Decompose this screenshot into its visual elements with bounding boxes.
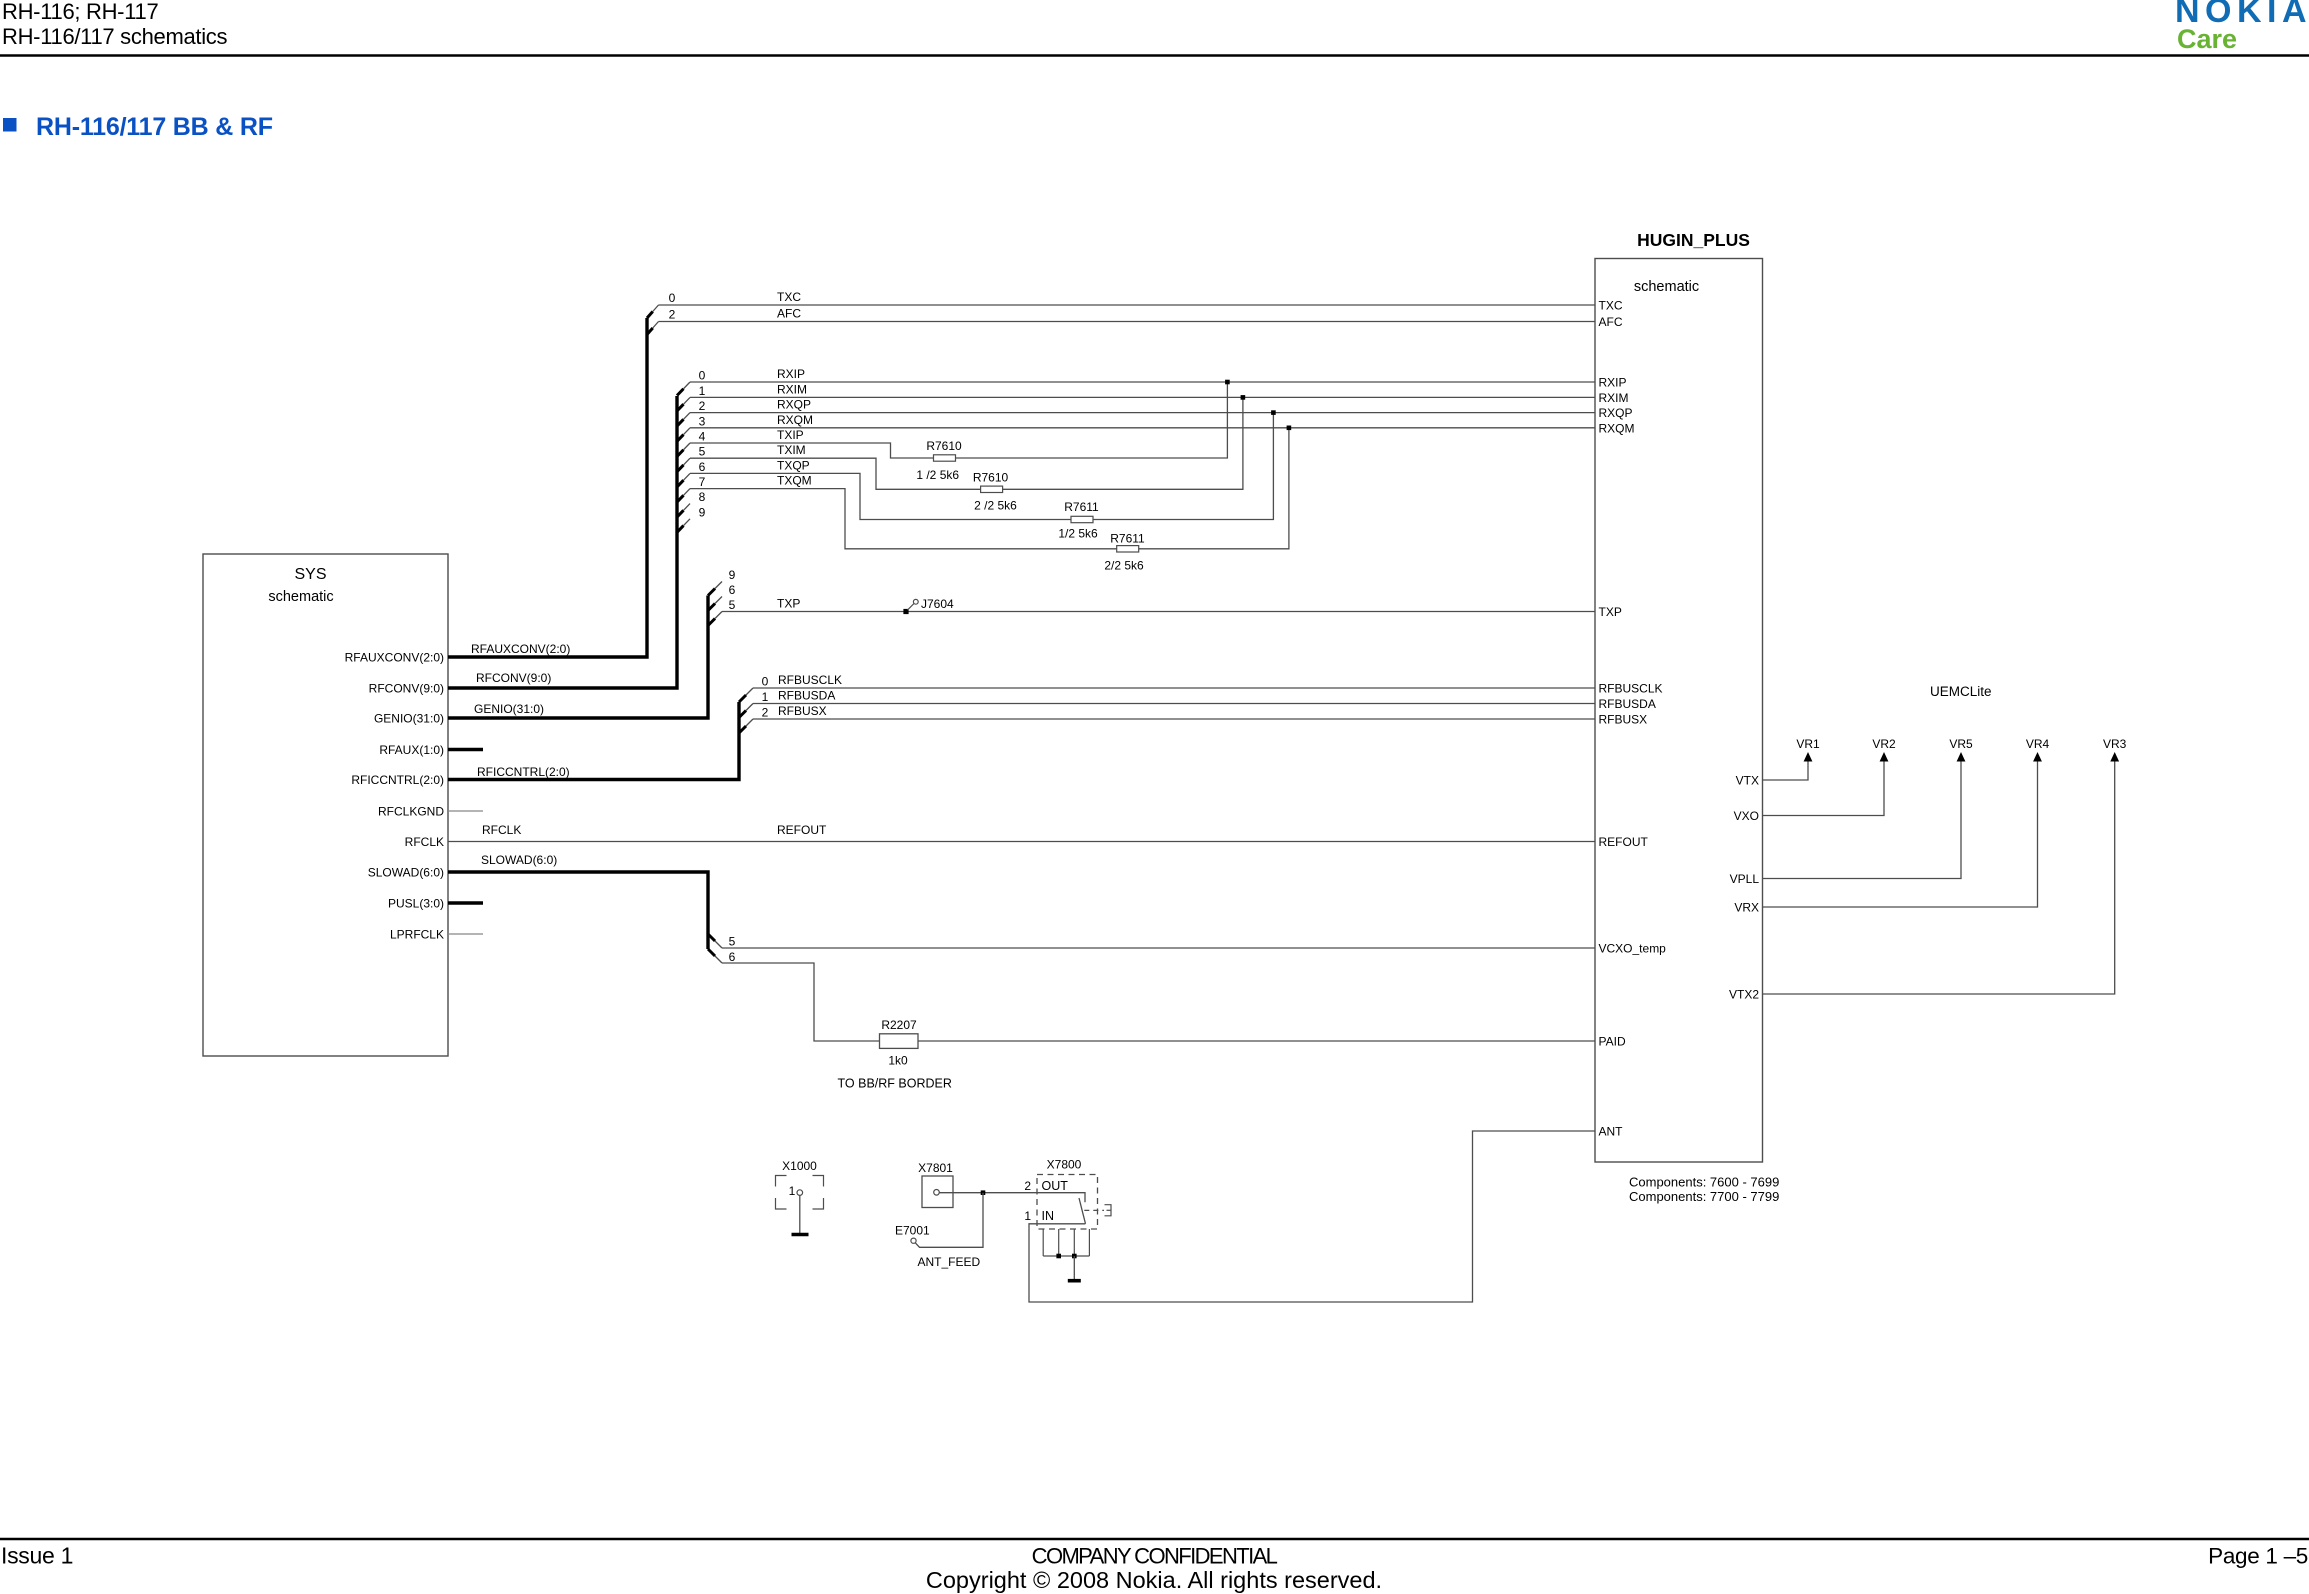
wire from R7610 to RX line <box>956 382 1228 458</box>
connector X7801 pin circle <box>934 1190 940 1196</box>
power net label VR1 <box>1796 737 1820 751</box>
svg-text:TO BB/RF BORDER: TO BB/RF BORDER <box>838 1077 952 1091</box>
HUGIN_PLUS pin label RFBUSX <box>1599 713 1648 727</box>
footer issue text <box>1 1543 73 1569</box>
tap number 6 (PAID) <box>729 950 736 964</box>
SYS pin stub RFCLKGND <box>448 810 483 812</box>
net label ANT_FEED <box>918 1255 981 1269</box>
wire VTX2 to VR3 <box>1763 760 2115 994</box>
svg-text:RFAUXCONV(2:0): RFAUXCONV(2:0) <box>471 642 570 656</box>
footer copyright <box>926 1567 1382 1593</box>
switch X7800 pin name OUT <box>1042 1179 1069 1193</box>
svg-text:2: 2 <box>669 308 676 322</box>
svg-text:5: 5 <box>729 598 736 612</box>
svg-text:TXC: TXC <box>1599 299 1623 313</box>
resistor R7610 value label 1 /2 5k6 <box>916 468 959 482</box>
wire RFBUSCLK <box>753 687 1595 689</box>
tap number 8 <box>699 490 706 504</box>
section heading RH-116/117 BB & RF <box>36 113 273 141</box>
document header title line 2 <box>2 24 228 49</box>
wire VCXO_temp <box>722 947 1595 949</box>
connector J7604 pin circle <box>913 599 918 604</box>
wire RXIM <box>690 396 1595 398</box>
svg-text:VPLL: VPLL <box>1730 872 1760 886</box>
tap number 6 <box>699 460 706 474</box>
footer company confidential <box>1032 1544 1278 1569</box>
svg-text:TXQM: TXQM <box>777 474 812 488</box>
SYS pin label LPRFCLK <box>390 928 444 942</box>
wire TXIM to resistor R7610 <box>690 458 981 489</box>
svg-text:GENIO(31:0): GENIO(31:0) <box>474 702 544 716</box>
svg-text:RFBUSCLK: RFBUSCLK <box>1599 682 1663 696</box>
SYS pin label RFCLK <box>405 835 444 849</box>
svg-text:1k0: 1k0 <box>888 1054 908 1068</box>
bus entry tap 2 (RFBUSX) <box>739 719 753 733</box>
svg-text:SLOWAD(6:0): SLOWAD(6:0) <box>368 866 444 880</box>
power arrow VR4 <box>2033 752 2042 762</box>
document header title line 1 <box>2 0 158 24</box>
junction on RX line at x=1227.4 <box>1225 380 1230 385</box>
svg-text:VR4: VR4 <box>2026 737 2050 751</box>
svg-text:8: 8 <box>699 490 706 504</box>
switch X7800 dashed body <box>1037 1175 1098 1230</box>
svg-text:VRX: VRX <box>1734 901 1759 915</box>
svg-text:2 /2 5k6: 2 /2 5k6 <box>974 499 1017 513</box>
wire TXP <box>722 611 1595 613</box>
connector X7801 body <box>922 1176 953 1208</box>
svg-text:4: 4 <box>699 430 706 444</box>
svg-text:6: 6 <box>729 583 736 597</box>
connector X1000 reference label <box>782 1159 817 1173</box>
SYS pin label RFICCNTRL(2:0) <box>351 773 444 787</box>
net label RXIP <box>777 367 805 381</box>
resistor R7610 (2 /2 5k6) <box>981 486 1003 492</box>
connector X1000 body corner brackets <box>776 1176 824 1210</box>
wire VTX to VR1 <box>1763 760 1809 780</box>
HUGIN_PLUS pin label RXIM <box>1599 391 1629 405</box>
power arrow VR1 <box>1804 752 1813 762</box>
svg-text:VR2: VR2 <box>1872 737 1896 751</box>
SYS pin stub PUSL(3:0) <box>448 901 483 905</box>
ground symbol <box>1068 1279 1081 1283</box>
SYS pin label RFAUX(1:0) <box>379 743 444 757</box>
bus entry tap 4 (TXIP) <box>677 443 690 457</box>
bus entry tap 9 (spare) <box>677 519 690 533</box>
net label TXQP <box>777 458 810 472</box>
resistor R7610 value label 2 /2 5k6 <box>974 499 1017 513</box>
SYS pin label RFCONV(9:0) <box>369 682 444 696</box>
net label TXQM <box>777 474 812 488</box>
svg-text:RH-116/117 schematics: RH-116/117 schematics <box>2 24 228 49</box>
resistor R7611 value label 2/2 5k6 <box>1104 559 1144 573</box>
section heading bullet square <box>3 118 17 132</box>
tap number 0 <box>699 369 706 383</box>
net label TXIM <box>777 443 806 457</box>
tap number 0 (TXC) <box>669 291 676 305</box>
wire VRX to VR4 <box>1763 760 2038 907</box>
svg-text:schematic: schematic <box>1634 279 1699 295</box>
junction on RX line at x=1242.9 <box>1241 395 1246 400</box>
svg-text:1: 1 <box>789 1184 796 1198</box>
wire AFC <box>659 321 1596 323</box>
bus entry tap 0 (TXC) <box>647 305 659 318</box>
svg-text:COMPANY CONFIDENTIAL: COMPANY CONFIDENTIAL <box>1032 1544 1278 1569</box>
svg-text:GENIO(31:0): GENIO(31:0) <box>374 712 444 726</box>
svg-text:Issue 1: Issue 1 <box>1 1543 73 1569</box>
HUGIN_PLUS pin label RXQP <box>1599 406 1633 420</box>
switch X7800 pin number 1 <box>1024 1209 1031 1223</box>
note TO BB/RF BORDER <box>838 1077 952 1091</box>
switch X7800 OUT contact <box>1037 1193 1085 1203</box>
tap number 0 (RFBUSCLK) <box>762 675 769 689</box>
svg-text:Page 1 –5: Page 1 –5 <box>2208 1544 2308 1569</box>
bus entry tap 5 (VCXO_temp) <box>708 934 722 948</box>
svg-text:RFBUSX: RFBUSX <box>778 704 827 718</box>
svg-text:REFOUT: REFOUT <box>777 823 827 837</box>
svg-text:0: 0 <box>669 291 676 305</box>
footer page number <box>2208 1544 2308 1569</box>
svg-text:VTX2: VTX2 <box>1729 988 1759 1002</box>
tap number 2 (AFC) <box>669 308 676 322</box>
NOKIA Care logo text <box>2177 24 2237 54</box>
svg-text:UEMCLite: UEMCLite <box>1930 684 1992 699</box>
connector X7801 reference label <box>918 1161 953 1175</box>
wire RFCLK / REFOUT <box>448 841 1595 843</box>
tap number 1 (RFBUSDA) <box>762 690 769 704</box>
svg-text:9: 9 <box>729 568 736 582</box>
bus entry tap 1 (RXIM) <box>677 397 690 411</box>
svg-text:RFCONV(9:0): RFCONV(9:0) <box>476 671 551 685</box>
connector J7604 reference label <box>921 597 954 611</box>
junction on ground rail 1 <box>1056 1254 1061 1259</box>
svg-text:1: 1 <box>699 384 706 398</box>
svg-text:RXQP: RXQP <box>1599 406 1633 420</box>
net label TXP <box>777 597 800 611</box>
svg-text:LPRFCLK: LPRFCLK <box>390 928 444 942</box>
svg-text:Components: 7700 - 7799: Components: 7700 - 7799 <box>1629 1189 1779 1204</box>
bus entry tap 7 (TXQM) <box>677 489 690 503</box>
bus label RFCONV(9:0) <box>476 671 551 685</box>
resistor R7611 (2/2 5k6) <box>1117 546 1139 552</box>
svg-text:R2207: R2207 <box>881 1018 917 1032</box>
resistor R2207 reference label <box>881 1018 917 1032</box>
svg-text:RFAUX(1:0): RFAUX(1:0) <box>379 743 444 757</box>
bus entry tap 3 (RXQM) <box>677 428 690 442</box>
SYS pin stub RFAUX(1:0) <box>448 748 483 752</box>
NOKIA logo wordmark <box>2175 0 2309 30</box>
svg-text:SYS: SYS <box>294 566 326 583</box>
svg-text:E7001: E7001 <box>895 1224 930 1238</box>
connector X1000 pin number 1 <box>789 1184 796 1198</box>
svg-text:Care: Care <box>2177 24 2237 54</box>
HUGIN_PLUS pin label VTX <box>1736 774 1759 788</box>
HUGIN_PLUS pin label VRX <box>1734 901 1759 915</box>
svg-text:RFCLK: RFCLK <box>405 835 444 849</box>
power arrow VR2 <box>1880 752 1889 762</box>
svg-text:R7610: R7610 <box>973 471 1009 485</box>
resistor R7611 value label 1/2 5k6 <box>1058 527 1098 541</box>
switch X7800 moving blade <box>1079 1198 1086 1224</box>
wire from R7610 to RX line <box>1003 397 1243 489</box>
bus label GENIO(31:0) <box>474 702 544 716</box>
bus entry tap 1 (RFBUSDA) <box>739 704 753 718</box>
svg-text:VXO: VXO <box>1734 809 1759 823</box>
svg-text:AFC: AFC <box>777 307 801 321</box>
wire RXIP <box>690 381 1595 383</box>
svg-text:R7611: R7611 <box>1064 500 1099 514</box>
svg-text:TXIM: TXIM <box>777 443 806 457</box>
SYS block name <box>294 566 326 583</box>
HUGIN_PLUS pin label VTX2 <box>1729 988 1759 1002</box>
svg-text:1/2 5k6: 1/2 5k6 <box>1058 527 1098 541</box>
footer horizontal rule <box>0 1538 2309 1541</box>
bus label RFAUXCONV(2:0) <box>471 642 570 656</box>
svg-text:0: 0 <box>762 675 769 689</box>
tap number 1 <box>699 384 706 398</box>
connector X1000 antenna stub wire <box>799 1195 801 1233</box>
svg-text:2: 2 <box>762 706 769 720</box>
svg-text:ANT_FEED: ANT_FEED <box>918 1255 981 1269</box>
connector J7604 pad on TXP wire <box>903 609 908 614</box>
tap number 4 <box>699 430 706 444</box>
svg-text:VR3: VR3 <box>2103 737 2127 751</box>
wire from R2207 to PAID pin <box>918 1040 1595 1042</box>
wire from R7611 to RX line <box>1093 413 1273 520</box>
SYS pin label SLOWAD(6:0) <box>368 866 444 880</box>
bus entry tap 5 (TXIM) <box>677 458 690 472</box>
SYS pin label GENIO(31:0) <box>374 712 444 726</box>
bus entry tap 6 (PAID) <box>708 949 722 963</box>
svg-text:1: 1 <box>762 690 769 704</box>
SYS pin label RFCLKGND <box>378 805 444 819</box>
svg-text:TXC: TXC <box>777 290 801 304</box>
svg-text:RFBUSCLK: RFBUSCLK <box>778 673 842 687</box>
resistor R2207 value label 1k0 <box>888 1054 908 1068</box>
switch X7800 reference label <box>1047 1158 1082 1172</box>
connector J7604 pin stem <box>908 604 915 611</box>
bus label RFICCNTRL(2:0) <box>477 765 570 779</box>
power net label VR3 <box>2103 737 2127 751</box>
svg-text:X7800: X7800 <box>1047 1158 1082 1172</box>
resistor R7610 reference label <box>926 439 962 453</box>
wire VXO to VR2 <box>1763 760 1885 816</box>
bus label SLOWAD(6:0) <box>481 853 557 867</box>
svg-text:PUSL(3:0): PUSL(3:0) <box>388 897 444 911</box>
wire X7801 to X7800 OUT <box>939 1192 1037 1194</box>
HUGIN_PLUS pin label VXO <box>1734 809 1759 823</box>
bus RFAUXCONV(2:0) from SYS <box>448 318 647 657</box>
wire TXC <box>659 304 1596 306</box>
svg-text:5: 5 <box>699 445 706 459</box>
svg-text:2: 2 <box>699 399 706 413</box>
test point E7001 circle <box>911 1238 916 1243</box>
svg-text:RFICCNTRL(2:0): RFICCNTRL(2:0) <box>351 773 444 787</box>
resistor R7610 reference label <box>973 471 1009 485</box>
switch X7800 actuator symbol <box>1105 1205 1112 1216</box>
UEMCLite label <box>1930 684 1992 699</box>
svg-text:RFAUXCONV(2:0): RFAUXCONV(2:0) <box>345 651 444 665</box>
junction on ground rail 2 <box>1072 1254 1077 1259</box>
svg-text:HUGIN_PLUS: HUGIN_PLUS <box>1637 230 1750 250</box>
SYS pin stub LPRFCLK <box>448 933 483 935</box>
svg-text:TXIP: TXIP <box>777 428 804 442</box>
svg-text:5: 5 <box>729 935 736 949</box>
svg-text:RFBUSDA: RFBUSDA <box>778 689 835 703</box>
switch X7800 pin number 2 <box>1024 1179 1031 1193</box>
svg-text:X1000: X1000 <box>782 1159 817 1173</box>
tap number 9 <box>699 505 706 519</box>
SYS pin label PUSL(3:0) <box>388 897 444 911</box>
svg-text:IN: IN <box>1042 1209 1055 1223</box>
wire to ground symbol <box>1073 1256 1075 1279</box>
bus entry tap 9 (spare) <box>708 582 722 596</box>
svg-text:RXIP: RXIP <box>1599 376 1627 390</box>
tap number 5 <box>699 445 706 459</box>
junction on RX line at x=1288.9 <box>1287 426 1292 431</box>
wire TXIP to resistor R7610 <box>690 443 934 458</box>
connector X1000 pin circle <box>797 1190 803 1196</box>
tap number 3 <box>699 414 706 428</box>
svg-text:J7604: J7604 <box>921 597 954 611</box>
net label RFBUSX <box>778 704 827 718</box>
svg-text:6: 6 <box>729 950 736 964</box>
svg-text:RXQM: RXQM <box>1599 421 1635 435</box>
svg-text:VR5: VR5 <box>1949 737 1973 751</box>
tap number 5 (TXP) <box>729 598 736 612</box>
svg-text:3: 3 <box>699 414 706 428</box>
svg-text:2/2 5k6: 2/2 5k6 <box>1104 559 1144 573</box>
wire RXQM <box>690 427 1595 429</box>
svg-text:7: 7 <box>699 475 706 489</box>
bus entry tap 2 (RXQP) <box>677 413 690 427</box>
svg-text:TXP: TXP <box>1599 605 1622 619</box>
net label AFC <box>777 307 801 321</box>
svg-text:RFCLK: RFCLK <box>482 823 521 837</box>
bus entry tap 2 (AFC) <box>647 322 659 335</box>
svg-text:R7611: R7611 <box>1110 532 1145 546</box>
svg-text:VTX: VTX <box>1736 774 1759 788</box>
switch X7800 IN contact wire <box>1037 1223 1085 1225</box>
svg-text:Components: 7600 - 7699: Components: 7600 - 7699 <box>1629 1175 1779 1190</box>
HUGIN_PLUS pin label TXC <box>1599 299 1623 313</box>
svg-text:1 /2 5k6: 1 /2 5k6 <box>916 468 959 482</box>
bus entry tap 5 (TXP) <box>708 612 722 626</box>
wire VPLL to VR5 <box>1763 760 1962 879</box>
bus entry tap 0 (RXIP) <box>677 382 690 396</box>
wire from R7611 to RX line <box>1139 428 1289 549</box>
HUGIN_PLUS pin label RFBUSCLK <box>1599 682 1663 696</box>
net label RFBUSDA <box>778 689 835 703</box>
tap number 2 <box>699 399 706 413</box>
wire RXQP <box>690 412 1595 414</box>
svg-text:RXIP: RXIP <box>777 367 805 381</box>
switch X7800 actuator dashed link <box>1084 1209 1104 1211</box>
power net label VR5 <box>1949 737 1973 751</box>
antenna element bar of X1000 <box>792 1233 809 1237</box>
wire TXQM to resistor R7611 <box>690 489 1117 549</box>
HUGIN_PLUS block name <box>1637 230 1750 250</box>
svg-text:6: 6 <box>699 460 706 474</box>
test point E7001 reference label <box>895 1224 930 1238</box>
tap number 6 (TXP) <box>729 583 736 597</box>
tap number 5 (VCXO_temp) <box>729 935 736 949</box>
switch X7800 ground pin wires <box>1043 1229 1089 1256</box>
resistor R7611 reference label <box>1110 532 1145 546</box>
wire RFBUSDA <box>753 703 1595 705</box>
svg-text:RXQP: RXQP <box>777 398 811 412</box>
switch X7800 pin name IN <box>1042 1209 1055 1223</box>
svg-text:RFICCNTRL(2:0): RFICCNTRL(2:0) <box>477 765 570 779</box>
HUGIN_PLUS pin label TXP <box>1599 605 1622 619</box>
HUGIN_PLUS pin label RFBUSDA <box>1599 697 1656 711</box>
svg-text:RXQM: RXQM <box>777 413 813 427</box>
svg-text:REFOUT: REFOUT <box>1599 835 1649 849</box>
resistor R7610 (1 /2 5k6) <box>934 455 956 461</box>
HUGIN_PLUS pin label AFC <box>1599 315 1623 329</box>
bus entry tap 6 (TXQP) <box>677 473 690 487</box>
HUGIN_PLUS pin label REFOUT <box>1599 835 1649 849</box>
bus RFICCNTRL(2:0) from SYS <box>448 702 739 780</box>
svg-text:RH-116; RH-117: RH-116; RH-117 <box>2 0 158 24</box>
tap number 7 <box>699 475 706 489</box>
bus GENIO(31:0) from SYS <box>448 596 708 719</box>
svg-text:PAID: PAID <box>1599 1035 1626 1049</box>
net label RFBUSCLK <box>778 673 842 687</box>
junction on RX line at x=1273.4 <box>1271 410 1276 415</box>
svg-text:RFBUSDA: RFBUSDA <box>1599 697 1656 711</box>
power arrow VR5 <box>1957 752 1966 762</box>
net label REFOUT <box>777 823 827 837</box>
resistor R7611 reference label <box>1064 500 1099 514</box>
svg-text:9: 9 <box>699 505 706 519</box>
svg-text:schematic: schematic <box>268 589 333 605</box>
svg-text:RXIM: RXIM <box>777 382 807 396</box>
HUGIN_PLUS pin label VCXO_temp <box>1599 942 1667 956</box>
bus entry tap 8 (spare) <box>677 504 690 517</box>
power arrow VR3 <box>2110 752 2119 762</box>
tap number 2 (RFBUSX) <box>762 706 769 720</box>
net label TXC <box>777 290 801 304</box>
bus SLOWAD(6:0) from SYS <box>448 872 708 949</box>
svg-text:R7610: R7610 <box>926 439 962 453</box>
SYS block subtitle schematic <box>268 589 333 605</box>
svg-text:0: 0 <box>699 369 706 383</box>
wire ANT net from HUGIN to X7800 IN <box>1029 1131 1595 1302</box>
svg-text:RH-116/117 BB & RF: RH-116/117 BB & RF <box>36 113 273 141</box>
svg-text:Copyright © 2008 Nokia. All ri: Copyright © 2008 Nokia. All rights reser… <box>926 1567 1382 1593</box>
net label TXIP <box>777 428 804 442</box>
resistor R2207 (1k0) <box>880 1034 919 1049</box>
SYS pin label RFAUXCONV(2:0) <box>345 651 444 665</box>
net label RFCLK <box>482 823 521 837</box>
svg-text:ANT: ANT <box>1599 1125 1624 1139</box>
svg-text:RFBUSX: RFBUSX <box>1599 713 1648 727</box>
bus entry tap 6 (spare) <box>708 597 722 611</box>
HUGIN_PLUS block outline <box>1595 259 1763 1163</box>
header horizontal rule <box>0 54 2309 57</box>
svg-text:RFCLKGND: RFCLKGND <box>378 805 444 819</box>
svg-text:RFCONV(9:0): RFCONV(9:0) <box>369 682 444 696</box>
wire TXQP to resistor R7611 <box>690 473 1071 519</box>
bus entry tap 0 (RFBUSCLK) <box>739 688 753 702</box>
tap number 9 (TXP) <box>729 568 736 582</box>
svg-text:VCXO_temp: VCXO_temp <box>1599 942 1667 956</box>
HUGIN_PLUS pin label RXQM <box>1599 421 1635 435</box>
resistor R7611 (1/2 5k6) <box>1071 516 1093 522</box>
svg-text:SLOWAD(6:0): SLOWAD(6:0) <box>481 853 557 867</box>
net label RXIM <box>777 382 807 396</box>
HUGIN_PLUS pin label RXIP <box>1599 376 1627 390</box>
